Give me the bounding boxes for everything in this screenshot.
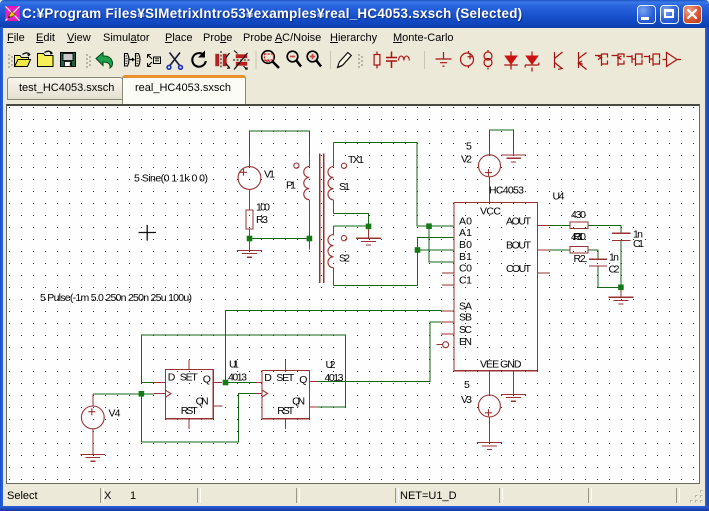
svg-text:D: D — [168, 372, 176, 384]
svg-text:SET: SET — [180, 372, 199, 384]
svg-text:SB: SB — [459, 311, 472, 323]
svg-text:U4: U4 — [553, 191, 565, 203]
svg-text:V1: V1 — [264, 169, 275, 181]
svg-text:5 Pulse(-1m 5.0 250n 250n 25u: 5 Pulse(-1m 5.0 250n 250n 25u 100u) — [40, 292, 192, 304]
svg-text:4013: 4013 — [325, 372, 344, 384]
svg-text:C0: C0 — [459, 262, 472, 274]
svg-text:V4: V4 — [109, 407, 121, 419]
svg-text:1n: 1n — [609, 252, 619, 264]
svg-text:S2: S2 — [339, 253, 350, 265]
svg-text:R2.: R2. — [574, 253, 588, 265]
svg-text:100: 100 — [256, 202, 270, 214]
svg-text:430: 430 — [571, 209, 586, 221]
svg-text:C2: C2 — [609, 264, 620, 276]
svg-text:Q: Q — [299, 374, 307, 386]
svg-text:RST: RST — [277, 405, 295, 417]
svg-text:D: D — [264, 372, 272, 384]
svg-text:TX1: TX1 — [348, 154, 364, 166]
svg-text:C1: C1 — [459, 274, 472, 286]
svg-text:5 Sine(0 1 1k 0 0): 5 Sine(0 1 1k 0 0) — [134, 173, 208, 185]
svg-text:HC4053: HC4053 — [489, 185, 524, 197]
svg-text:U2: U2 — [326, 359, 336, 371]
svg-text:B1: B1 — [459, 251, 472, 263]
svg-text:V3: V3 — [461, 394, 472, 406]
svg-text:EN: EN — [459, 336, 472, 348]
svg-text:V2: V2 — [461, 154, 472, 166]
svg-text:SET: SET — [276, 372, 295, 384]
svg-text:COUT: COUT — [506, 263, 532, 275]
svg-text:S1: S1 — [339, 181, 350, 193]
svg-text:SC: SC — [459, 324, 472, 336]
svg-text:P1: P1 — [286, 180, 296, 192]
svg-text:5: 5 — [466, 141, 472, 153]
svg-text:VEE GND: VEE GND — [480, 359, 522, 371]
svg-text:A1: A1 — [459, 227, 472, 239]
svg-text:C1: C1 — [633, 238, 644, 250]
svg-text:AOUT: AOUT — [506, 215, 532, 227]
svg-text:B0: B0 — [459, 239, 472, 251]
svg-text:A0: A0 — [459, 215, 472, 227]
svg-text:R3: R3 — [256, 214, 268, 226]
svg-text:VCC: VCC — [480, 206, 501, 218]
svg-text:Q: Q — [203, 373, 211, 385]
svg-text:RST: RST — [181, 405, 199, 417]
svg-text:BOUT: BOUT — [506, 239, 532, 251]
svg-text:U1: U1 — [229, 358, 239, 370]
svg-text:R1: R1 — [573, 231, 584, 243]
svg-text:4013: 4013 — [228, 372, 247, 384]
svg-text:5: 5 — [464, 379, 470, 391]
